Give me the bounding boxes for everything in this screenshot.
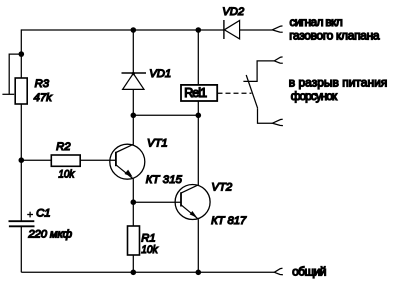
capacitor C1 plus sign — [27, 214, 33, 216]
diode VD1 cathode bar — [122, 72, 147, 74]
diode VD1 apex dot — [132, 72, 135, 75]
relay contact lower fixed lead — [258, 108, 273, 123]
svg-text:VD2: VD2 — [222, 6, 245, 18]
transistor VT2 collector stroke — [181, 185, 198, 193]
transistor VT2 circle — [175, 185, 210, 220]
wire left rail upper (R3 top lead) — [20, 29, 22, 78]
transistor VT1 emitter stroke — [116, 165, 134, 179]
svg-text:КТ 817: КТ 817 — [211, 215, 247, 227]
diode VD1 triangle — [123, 74, 144, 90]
svg-text:VT2: VT2 — [211, 182, 232, 194]
svg-text:R1: R1 — [141, 232, 155, 244]
svg-text:C1: C1 — [36, 208, 50, 220]
resistor R2 — [51, 155, 80, 166]
transistor VT1 circle — [110, 144, 145, 179]
svg-text:10k: 10k — [141, 244, 159, 256]
wire VT2 collector lead — [197, 115, 199, 185]
wire Rel1 top lead — [197, 30, 199, 85]
svg-text:общий: общий — [292, 265, 326, 279]
capacitor C1 bottom plate — [9, 225, 35, 227]
wire left rail lower (C1 to bottom rail) — [20, 226, 22, 272]
node junction VT2 emitter bottom — [196, 270, 202, 276]
transistor VT2 base bar — [180, 192, 182, 206]
svg-text:сигнал вкл: сигнал вкл — [290, 15, 343, 29]
svg-text:газового клапана: газового клапана — [289, 28, 380, 42]
wire R2 left lead — [21, 159, 51, 161]
wire top rail — [21, 29, 224, 31]
svg-text:47k: 47k — [34, 92, 54, 104]
wire R3 wiper link — [9, 54, 21, 94]
diode VD2 triangle — [224, 21, 239, 39]
transistor VT2 emitter arrow — [190, 211, 198, 218]
relay coil Rel1 — [181, 85, 217, 101]
wire VT2 base lead — [133, 201, 181, 203]
svg-text:R2: R2 — [56, 141, 71, 153]
node junction Rel1 top rail — [196, 27, 202, 33]
svg-text:форсунок: форсунок — [291, 89, 338, 103]
svg-text:VT1: VT1 — [147, 137, 168, 149]
node junction VT2 base — [131, 199, 137, 205]
svg-text:10k: 10k — [58, 169, 75, 181]
terminal contact lower — [272, 119, 283, 125]
node junction R2 tap — [19, 157, 25, 163]
node junction VD1 bottom — [131, 113, 137, 119]
relay contact blade — [246, 75, 257, 108]
transistor VT1 emitter arrow — [125, 170, 133, 177]
wire bottom rail — [21, 271, 274, 273]
terminal signal gas valve — [272, 26, 283, 32]
svg-text:220 мкф: 220 мкф — [27, 229, 72, 241]
wire VT1 collector lead — [132, 115, 134, 144]
capacitor C1 top plate — [9, 220, 35, 222]
wire VD1 bottom lead — [132, 89, 134, 115]
wire middle link VD1-Rel1 — [133, 114, 198, 116]
node junction Rel1 bottom — [196, 113, 202, 119]
svg-text:VD1: VD1 — [149, 68, 171, 80]
wire Rel1 bottom lead — [197, 101, 199, 115]
terminal common — [274, 268, 283, 274]
svg-text:в разрыв питания: в разрыв питания — [289, 76, 388, 90]
node junction VD1 top — [131, 27, 137, 33]
wire VT1 emitter to R1 — [132, 179, 134, 226]
resistor R1 — [128, 226, 140, 255]
relay contact link dashed — [218, 92, 252, 94]
wire R2 right lead to VT1 base — [80, 159, 116, 161]
terminal contact upper — [274, 57, 283, 63]
wire VT2 emitter to bottom rail — [197, 219, 199, 272]
svg-text:КТ 315: КТ 315 — [146, 174, 183, 186]
svg-text:R3: R3 — [35, 78, 50, 90]
wire VD1 top lead — [132, 30, 134, 73]
node junction R3 wiper — [19, 51, 25, 57]
wire left rail middle (R3 bottom to C1) — [20, 104, 22, 221]
node junction R1 bottom — [131, 270, 137, 276]
transistor VT2 emitter stroke — [181, 205, 198, 219]
resistor R3 — [15, 78, 27, 104]
transistor VT1 base bar — [115, 152, 117, 166]
wire VD2 anode lead — [240, 29, 273, 31]
wire R3 wiper tap — [2, 93, 14, 95]
transistor VT1 collector stroke — [116, 144, 134, 152]
wire R1 bottom lead — [132, 255, 134, 272]
svg-text:Rel1: Rel1 — [184, 86, 207, 100]
diode VD2 cathode bar — [223, 20, 225, 39]
relay contact upper fixed lead — [243, 61, 274, 82]
